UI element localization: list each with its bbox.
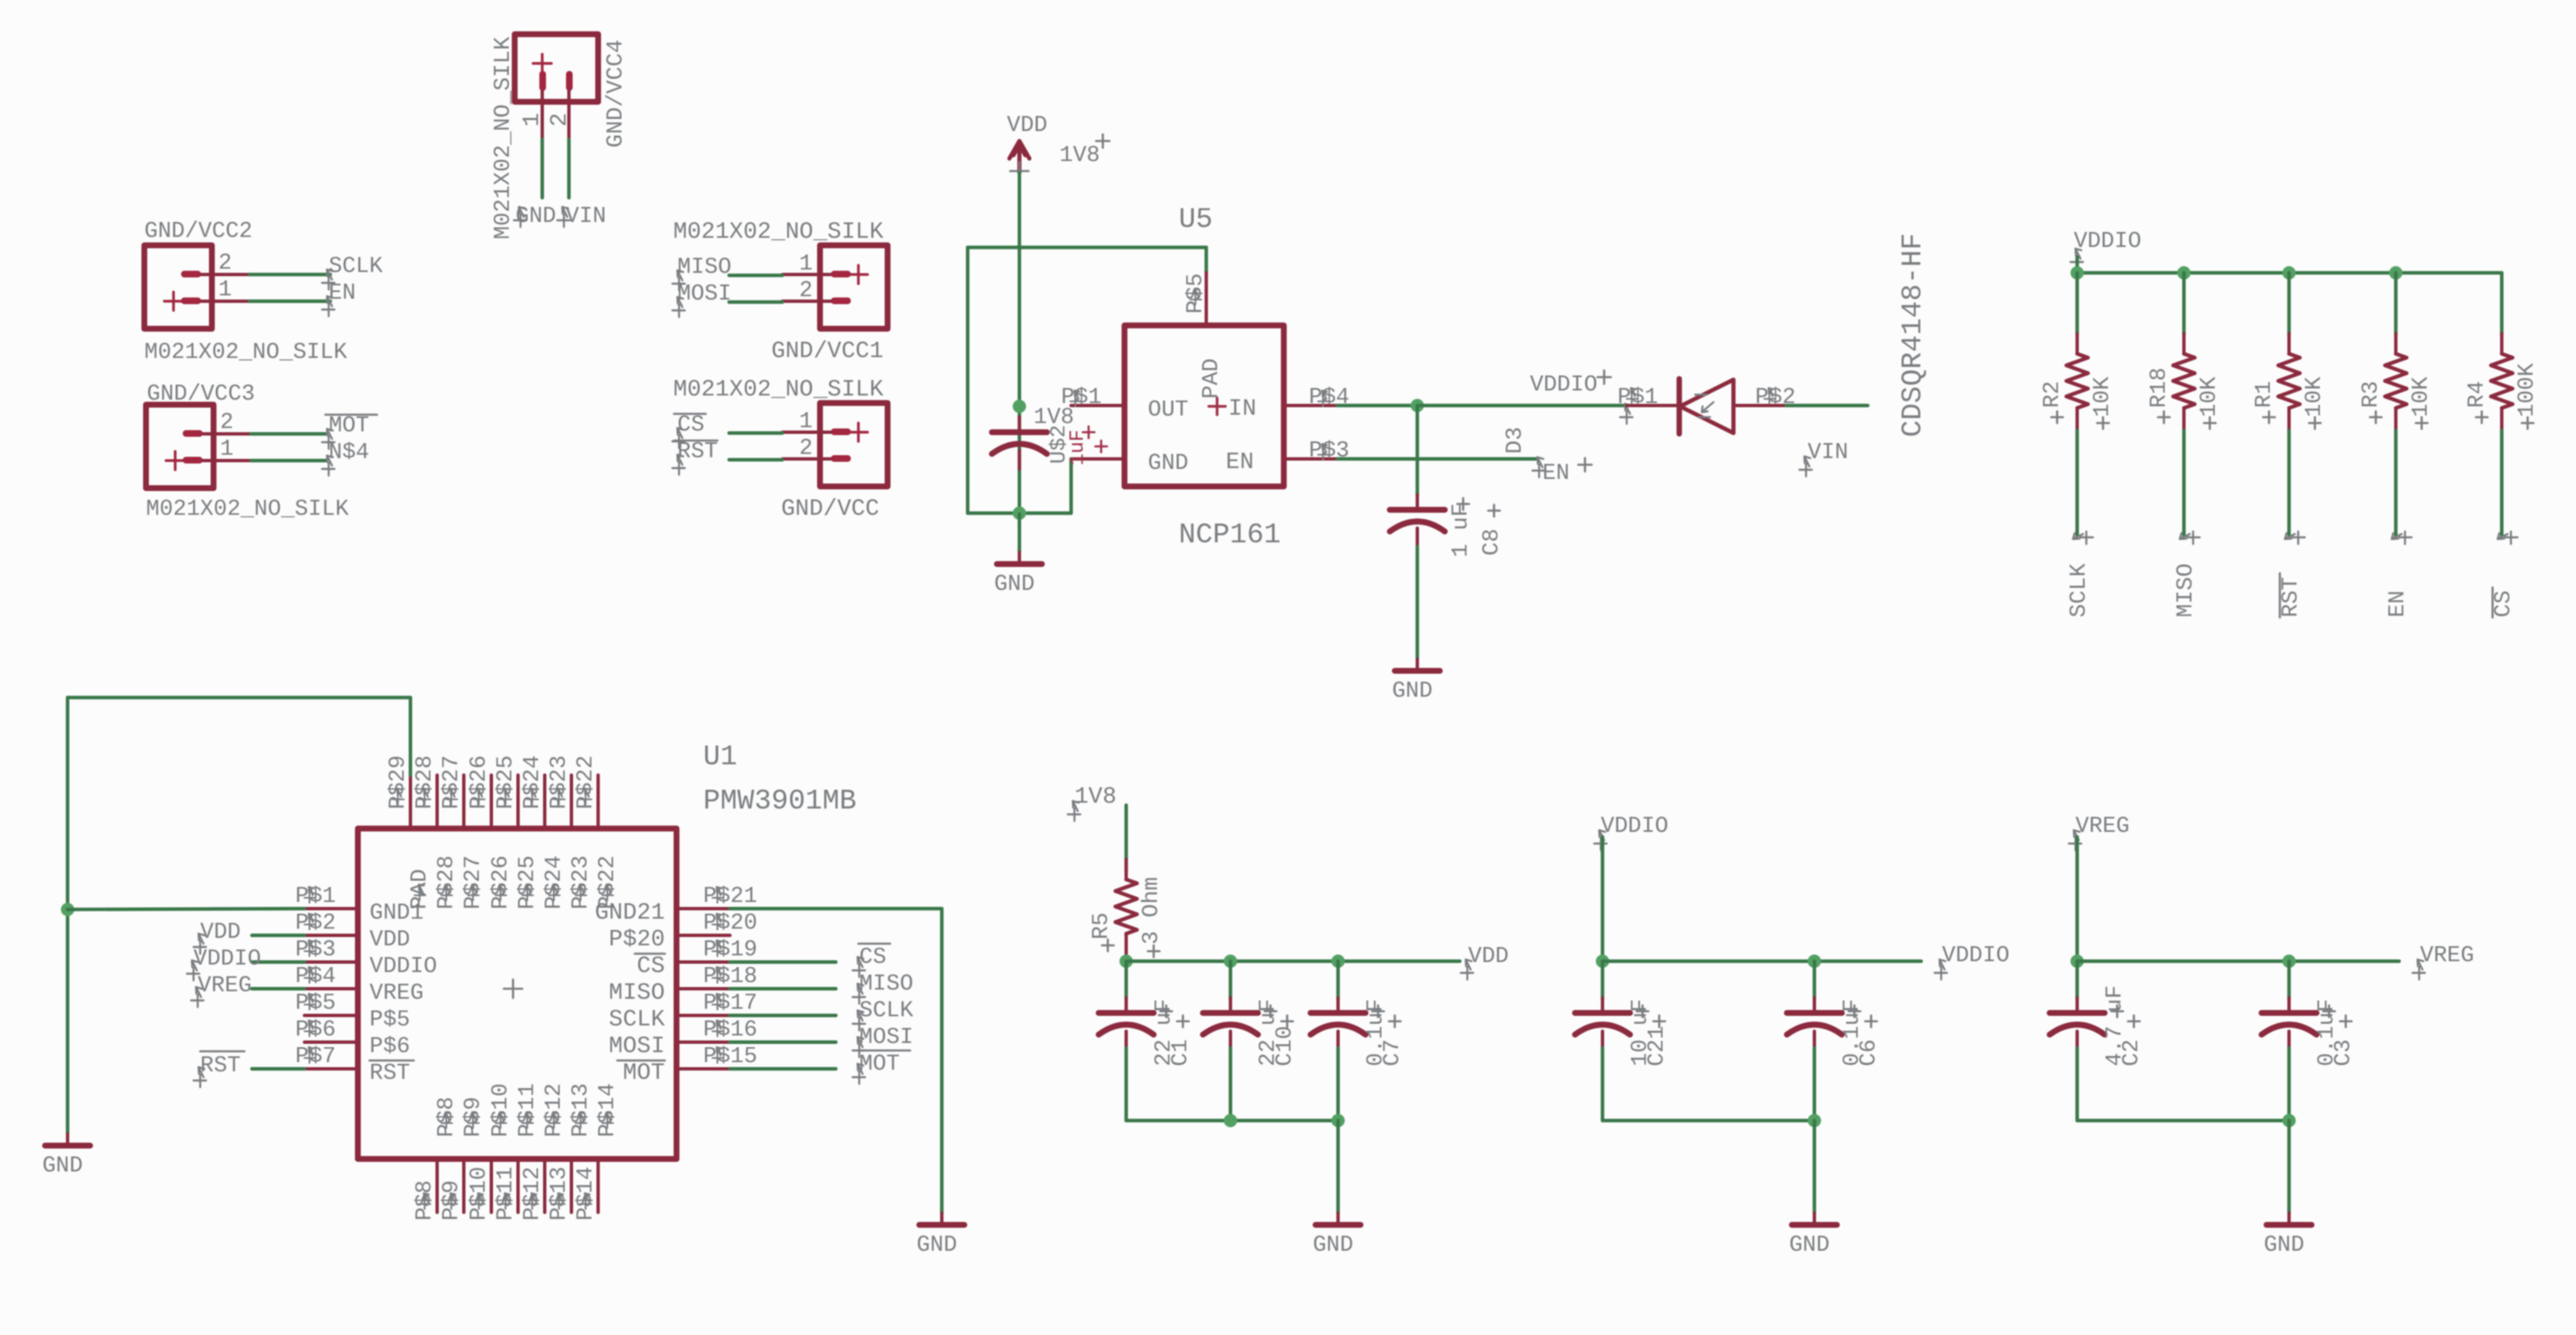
- svg-text:GND: GND: [1313, 1233, 1354, 1258]
- pin P$13 of U1 (bottom): [570, 1159, 573, 1212]
- svg-text:D3: D3: [1503, 427, 1528, 454]
- ground VREG group: [2287, 1213, 2291, 1225]
- capacitor U$2: [1018, 417, 1021, 432]
- svg-text:P$25: P$25: [516, 855, 541, 909]
- svg-text:2: 2: [547, 113, 573, 127]
- node VIN label: [1799, 456, 1812, 476]
- pin P$15 MOT of U1 (right): [677, 1067, 730, 1071]
- svg-text:GND: GND: [516, 204, 556, 229]
- pin P$6 P$6 of U1 (left): [304, 1040, 358, 1044]
- wire GND pin drop of U5: [1069, 459, 1073, 513]
- origin cross U1: [504, 980, 522, 998]
- svg-text:GND: GND: [917, 1233, 958, 1258]
- svg-text:MISO: MISO: [677, 255, 732, 280]
- junction VDDIO bus R3: [2389, 266, 2402, 280]
- node SCLK below R2: [2073, 531, 2093, 544]
- svg-text:1: 1: [799, 252, 813, 277]
- resistor R5: [1124, 859, 1128, 879]
- wire R1 to RST: [2287, 431, 2291, 536]
- wire GND21 vertical: [940, 909, 943, 1213]
- wire VDDIO drop: [2075, 257, 2079, 273]
- wire VDD bus: [1126, 960, 1460, 963]
- wire VDDIO to U1 P$3: [252, 960, 304, 964]
- resistor R4: [2500, 334, 2503, 354]
- wire EN net from U5 P$3: [1337, 457, 1536, 461]
- wire VDDIO drop to bus: [1601, 837, 1604, 961]
- capacitor C3: [2287, 961, 2291, 1000]
- wire EN from GND/VCC2 pin 1: [249, 300, 330, 303]
- pin P$8 of U1 (bottom): [435, 1159, 439, 1212]
- node VREG at U1: [191, 987, 204, 1007]
- connector GND/VCC1: [782, 245, 888, 329]
- supply VDD arrow: [1009, 141, 1029, 173]
- op-amp U5 NCP161 regulator box: [1124, 325, 1284, 486]
- pin P$25 of U1 (top): [516, 775, 520, 829]
- junction VREG C2: [2070, 955, 2084, 968]
- wire VREG group bottom bus: [2077, 1119, 2289, 1122]
- pin P$28 of U1 (top): [435, 775, 439, 829]
- svg-text:10K: 10K: [2090, 376, 2116, 417]
- wire SCLK from GND/VCC2 pin 2: [249, 273, 330, 276]
- svg-text:EN: EN: [2386, 591, 2411, 617]
- junction GND1 node: [61, 903, 74, 916]
- node MISO: [672, 270, 685, 290]
- node VIN label: [557, 207, 570, 227]
- svg-text:P$27: P$27: [461, 855, 486, 909]
- wire GND1 to P$1: [68, 909, 304, 909]
- svg-text:P$5: P$5: [370, 1008, 410, 1033]
- node GND label: [514, 207, 526, 227]
- svg-text:P$10: P$10: [489, 1083, 514, 1137]
- node VREG supply label left: [2069, 830, 2081, 850]
- svg-text:2: 2: [220, 411, 234, 436]
- wire VDD to U1 P$2: [252, 934, 304, 937]
- pin P$14 of U1 (bottom): [596, 1159, 600, 1212]
- capacitor C2: [2075, 961, 2079, 1000]
- svg-text:P$24: P$24: [542, 855, 567, 909]
- capacitor C6: [1813, 961, 1816, 1000]
- svg-text:M021X02_NO_SILK: M021X02_NO_SILK: [146, 497, 350, 522]
- node CS: [672, 428, 685, 448]
- node MISO right of U1: [853, 984, 865, 1004]
- node VDDIO at U1: [187, 960, 199, 980]
- wire GND1 loop P$29 drop: [409, 698, 412, 775]
- svg-text:P$17: P$17: [703, 991, 757, 1016]
- svg-text:1: 1: [520, 113, 546, 127]
- junction OUT node: [1013, 400, 1026, 413]
- svg-text:1V8: 1V8: [1074, 784, 1116, 810]
- wire IN net from U5 to junction: [1337, 404, 1417, 407]
- svg-text:GND: GND: [1392, 679, 1433, 704]
- svg-text:M021X02_NO_SILK: M021X02_NO_SILK: [144, 340, 348, 365]
- junction GND node: [1013, 506, 1026, 520]
- svg-text:N$4: N$4: [329, 441, 370, 466]
- wire VREG drop to bus: [2075, 837, 2079, 961]
- junction C3 top: [2282, 955, 2296, 968]
- pin P$12 of U1 (bottom): [543, 1159, 546, 1212]
- resistor R1: [2287, 334, 2291, 354]
- svg-text:VIN: VIN: [1808, 441, 1849, 466]
- svg-text:P$28: P$28: [435, 855, 460, 909]
- svg-text:1 uF: 1 uF: [1449, 503, 1474, 557]
- junction C6 top: [1808, 955, 1821, 968]
- wire 1V8 to R5: [1124, 805, 1128, 873]
- capacitor C8: [1416, 406, 1419, 497]
- junction R5 VDD bus: [1119, 955, 1133, 968]
- pin P$7 RST of U1 (left): [304, 1067, 358, 1071]
- ground below U5: [1018, 514, 1021, 552]
- node VDD label right: [1461, 960, 1473, 980]
- node VDDIO label right 2: [1935, 960, 1947, 980]
- svg-text:P$20: P$20: [609, 927, 665, 953]
- diode D3 CDSQR4148-HF: [1627, 404, 1679, 407]
- svg-text:MOT: MOT: [623, 1060, 665, 1086]
- pin P$26 of U1 (top): [490, 775, 493, 829]
- svg-text:P$20: P$20: [703, 911, 757, 936]
- svg-text:PMW3901MB: PMW3901MB: [703, 786, 857, 818]
- wire VDD group bottom bus: [1126, 1119, 1338, 1122]
- svg-text:OUT: OUT: [1148, 398, 1189, 423]
- svg-text:R5: R5: [1089, 913, 1114, 940]
- svg-text:P$6: P$6: [370, 1035, 410, 1060]
- svg-text:GND: GND: [1789, 1233, 1830, 1258]
- wire GND1 loop left vertical: [66, 698, 69, 1133]
- wire GND from GND/VCC4 pin 1: [541, 139, 544, 198]
- connector GND/VCC: [782, 403, 888, 486]
- node EN: [322, 296, 335, 316]
- svg-text:VDD: VDD: [200, 920, 241, 945]
- wire VDDIO to R4: [2500, 273, 2503, 335]
- svg-text:VDDIO: VDDIO: [370, 955, 437, 980]
- svg-text:1: 1: [799, 410, 813, 435]
- junction VDDIO bus R1: [2282, 266, 2296, 280]
- ground VDDIO group: [1813, 1213, 1816, 1225]
- svg-text:2: 2: [219, 251, 232, 276]
- svg-text:2: 2: [799, 436, 813, 461]
- resistor R2: [2075, 334, 2079, 354]
- junction bottom C3: [2282, 1114, 2296, 1127]
- ground VDD group: [1336, 1213, 1340, 1225]
- pin P$11 of U1 (bottom): [516, 1159, 520, 1212]
- pin P$1 OUT of U5: [1071, 404, 1124, 407]
- wire R4 to CS: [2500, 431, 2503, 536]
- pin P$18 MISO of U1 (right): [677, 987, 730, 990]
- svg-text:P$11: P$11: [516, 1083, 541, 1137]
- node MISO below R18: [2180, 531, 2200, 544]
- wire VREG to U1 P$4: [252, 987, 304, 990]
- svg-text:P$23: P$23: [569, 855, 594, 909]
- node EN label: [1532, 457, 1545, 477]
- node RST below R1: [2285, 531, 2305, 544]
- wire RST to GND/VCC pin 2: [729, 458, 782, 461]
- svg-text:10K: 10K: [2409, 376, 2434, 417]
- wire C8 to ground: [1416, 547, 1419, 659]
- svg-text:GND21: GND21: [595, 900, 665, 926]
- svg-text:10K: 10K: [2197, 376, 2222, 417]
- connector GND/VCC2: [144, 245, 249, 329]
- svg-text:C21: C21: [1645, 1025, 1670, 1066]
- wire CS from U1: [730, 960, 836, 964]
- svg-text:U1: U1: [703, 742, 737, 773]
- svg-text:M021X02_NO_SILK: M021X02_NO_SILK: [491, 36, 516, 239]
- IC U1 PMW3901MB box: [358, 829, 677, 1159]
- wire MOSI from U1: [730, 1040, 836, 1044]
- wire U5 bottom loop: [968, 511, 1071, 515]
- node RST: [672, 455, 685, 475]
- wire VIN from GND/VCC4 pin 2: [567, 139, 571, 198]
- svg-text:VREG: VREG: [198, 974, 252, 999]
- svg-text:MISO: MISO: [609, 980, 665, 1006]
- svg-text:VDD: VDD: [1468, 945, 1509, 970]
- svg-text:R2: R2: [2040, 381, 2065, 408]
- wire MOSI to GND/VCC1 pin 2: [729, 300, 782, 304]
- wire C7 to ground: [1336, 1121, 1340, 1213]
- svg-text:VDD: VDD: [370, 928, 410, 953]
- pin P$2 VDD of U1 (left): [304, 934, 358, 937]
- svg-text:GND: GND: [2264, 1233, 2305, 1258]
- svg-text:P$13: P$13: [569, 1083, 594, 1137]
- svg-text:MOSI: MOSI: [677, 282, 732, 307]
- svg-text:10K: 10K: [2302, 376, 2327, 417]
- wire R3 to EN: [2394, 431, 2397, 536]
- wire MISO to GND/VCC1 pin 1: [729, 274, 782, 277]
- svg-text:C3: C3: [2332, 1040, 2357, 1066]
- wire VDDIO bus 2: [1602, 960, 1921, 963]
- ground right of U1: [940, 1213, 943, 1225]
- svg-text:SCLK: SCLK: [609, 1007, 665, 1033]
- connector GND/VCC4: [515, 34, 598, 139]
- svg-text:NCP161: NCP161: [1179, 520, 1280, 552]
- pin P$19 CS of U1 (right): [677, 960, 730, 964]
- wire N$4 from GND/VCC3 pin 1: [251, 459, 325, 462]
- pin P$29 of U1 (top): [409, 775, 412, 829]
- svg-text:GND/VCC2: GND/VCC2: [144, 219, 253, 244]
- svg-text:R1: R1: [2252, 381, 2277, 408]
- pin P$1 GND1 of U1 (left): [304, 907, 358, 910]
- svg-text:MISO: MISO: [2174, 563, 2199, 617]
- node SCLK right of U1: [853, 1010, 865, 1030]
- pin P$4 VREG of U1 (left): [304, 987, 358, 990]
- svg-text:GND/VCC4: GND/VCC4: [604, 39, 629, 148]
- junction bottom C7: [1331, 1114, 1345, 1127]
- svg-text:CS: CS: [677, 413, 704, 438]
- pin P$9 of U1 (bottom): [462, 1159, 465, 1212]
- svg-text:C1: C1: [1169, 1040, 1194, 1066]
- pin P$5 P$5 of U1 (left): [304, 1014, 358, 1017]
- svg-text:1uF: 1uF: [1067, 430, 1089, 466]
- node MOSI: [672, 297, 685, 317]
- capacitor C7: [1336, 961, 1340, 1000]
- pin P$5 of U5: [1205, 273, 1208, 325]
- node MOT: [322, 429, 335, 449]
- svg-text:VREG: VREG: [2075, 814, 2130, 839]
- svg-text:GND: GND: [994, 572, 1035, 597]
- wire R2 to SCLK: [2075, 431, 2079, 536]
- wire VDDIO to R3: [2394, 273, 2397, 335]
- connector GND/VCC3: [146, 405, 251, 488]
- pin P$22 of U1 (top): [596, 775, 600, 829]
- svg-text:M021X02_NO_SILK: M021X02_NO_SILK: [673, 219, 883, 245]
- wire P$5 drop: [1205, 248, 1208, 274]
- svg-text:VDDIO: VDDIO: [1601, 814, 1668, 839]
- capacitor C10: [1229, 961, 1232, 1000]
- svg-text:VDD: VDD: [1007, 113, 1048, 139]
- capacitor C21: [1601, 961, 1604, 1000]
- wire VDDIO to R2: [2075, 273, 2079, 335]
- svg-text:M021X02_NO_SILK: M021X02_NO_SILK: [673, 377, 883, 403]
- svg-text:RST: RST: [2279, 577, 2304, 617]
- wire VIN net: [1786, 404, 1868, 407]
- wire GND21 from U1 P$21: [730, 907, 942, 910]
- ground left of U1: [66, 1134, 69, 1146]
- wire VDD vertical: [1018, 173, 1021, 514]
- junction VDDIO bus R2: [2070, 266, 2084, 280]
- svg-text:SCLK: SCLK: [2067, 562, 2092, 617]
- node 1V8 supply label: [1068, 801, 1080, 821]
- pin P$10 of U1 (bottom): [490, 1159, 493, 1212]
- svg-text:P$15: P$15: [703, 1045, 757, 1070]
- svg-text:R3: R3: [2359, 381, 2384, 408]
- node RST at U1: [194, 1067, 206, 1087]
- node VDDIO supply label left: [1594, 830, 1607, 850]
- svg-text:VREG: VREG: [370, 981, 424, 1006]
- svg-text:MOSI: MOSI: [859, 1025, 913, 1050]
- wire SCLK from U1: [730, 1014, 836, 1017]
- svg-text:C10: C10: [1273, 1025, 1298, 1066]
- svg-text:RST: RST: [200, 1054, 241, 1079]
- wire MISO from U1: [730, 987, 836, 990]
- svg-text:RST: RST: [677, 440, 718, 465]
- svg-text:C7: C7: [1381, 1040, 1406, 1066]
- wire U5 left loop vertical: [966, 248, 969, 514]
- node VDD at U1: [194, 934, 206, 954]
- node SCLK: [322, 270, 335, 290]
- node MOSI right of U1: [853, 1037, 865, 1057]
- junction C8 node: [1411, 399, 1424, 412]
- svg-text:MOT: MOT: [329, 414, 370, 439]
- wire C6 to ground: [1813, 1121, 1816, 1213]
- svg-text:GND/VCC3: GND/VCC3: [147, 382, 255, 407]
- svg-text:P$18: P$18: [703, 965, 757, 990]
- pin P$17 SCLK of U1 (right): [677, 1014, 730, 1017]
- svg-text:GND: GND: [1148, 451, 1189, 476]
- pin P$27 of U1 (top): [462, 775, 465, 829]
- node MOT right of U1: [853, 1064, 865, 1084]
- wire CS to GND/VCC pin 1: [729, 431, 782, 435]
- pin P$20 P$20 of U1 (right): [677, 934, 730, 937]
- wire GND1 loop top: [68, 696, 410, 699]
- resistor R3: [2394, 334, 2397, 354]
- pin P$24 of U1 (top): [543, 775, 546, 829]
- svg-text:MOT: MOT: [859, 1052, 900, 1077]
- resistor R18: [2182, 334, 2186, 354]
- svg-text:MOSI: MOSI: [609, 1034, 665, 1060]
- svg-text:IN: IN: [1228, 396, 1256, 422]
- svg-text:GND1: GND1: [370, 901, 424, 926]
- pin GND of U5: [1071, 457, 1124, 461]
- svg-text:C8: C8: [1480, 529, 1505, 556]
- pin P$3 VDDIO of U1 (left): [304, 960, 358, 964]
- svg-text:PAD: PAD: [1200, 358, 1225, 399]
- node CS below R4: [2498, 531, 2518, 544]
- node VREG label right: [2412, 960, 2425, 980]
- svg-text:P$21: P$21: [703, 884, 757, 909]
- junction C10 top: [1224, 955, 1237, 968]
- svg-text:CS: CS: [2492, 591, 2517, 617]
- svg-text:VIN: VIN: [566, 204, 606, 229]
- wire VDDIO to R1: [2287, 273, 2291, 335]
- svg-text:P$19: P$19: [703, 938, 757, 963]
- svg-text:R4: R4: [2465, 381, 2490, 408]
- svg-text:P$12: P$12: [542, 1083, 567, 1137]
- svg-text:3 Ohm: 3 Ohm: [1140, 877, 1165, 945]
- pin P$23 of U1 (top): [570, 775, 573, 829]
- svg-text:C6: C6: [1857, 1040, 1882, 1066]
- svg-text:CS: CS: [636, 954, 665, 980]
- svg-text:GND: GND: [43, 1154, 83, 1179]
- svg-text:1: 1: [220, 437, 234, 462]
- wire U5 top loop horizontal: [968, 245, 1206, 249]
- wire R18 to MISO: [2182, 431, 2186, 536]
- svg-text:RST: RST: [370, 1061, 410, 1086]
- svg-text:P$14: P$14: [596, 1083, 621, 1137]
- svg-text:GND/VCC1: GND/VCC1: [772, 339, 883, 365]
- svg-text:EN: EN: [1542, 461, 1569, 486]
- pin P$3 EN of U5: [1284, 457, 1337, 461]
- svg-text:P$16: P$16: [703, 1018, 757, 1043]
- junction VDDIO bus R18: [2177, 266, 2191, 280]
- wire VDDIO bus: [2077, 271, 2502, 275]
- junction C7 top: [1331, 955, 1345, 968]
- ground below C8: [1416, 659, 1419, 671]
- wire VDDIO to R18: [2182, 273, 2186, 335]
- pin P$21 GND21 of U1 (right): [677, 907, 730, 910]
- svg-text:GND/VCC: GND/VCC: [781, 496, 879, 522]
- wire VREG bus: [2077, 960, 2399, 963]
- capacitor C1: [1124, 961, 1128, 1000]
- svg-text:R18: R18: [2147, 367, 2172, 408]
- svg-text:EN: EN: [1225, 450, 1254, 476]
- svg-text:EN: EN: [329, 281, 355, 306]
- wire VDDIO group bottom bus: [1602, 1119, 1814, 1122]
- svg-text:VREG: VREG: [2420, 944, 2474, 969]
- wire RST to U1 P$7: [252, 1067, 304, 1071]
- junction bottom C6: [1808, 1114, 1821, 1127]
- svg-text:CDSQR4148-HF: CDSQR4148-HF: [1898, 233, 1929, 437]
- svg-text:SCLK: SCLK: [859, 999, 914, 1024]
- svg-text:SCLK: SCLK: [329, 254, 384, 280]
- junction bottom C10: [1224, 1114, 1237, 1127]
- svg-text:MISO: MISO: [859, 972, 913, 997]
- svg-text:VDDIO: VDDIO: [1942, 944, 2010, 969]
- svg-text:C2: C2: [2120, 1040, 2145, 1066]
- svg-text:VDDIO: VDDIO: [194, 947, 261, 972]
- pin P$4 IN of U5: [1284, 404, 1337, 407]
- svg-text:VDDIO: VDDIO: [2074, 229, 2141, 254]
- svg-text:P$26: P$26: [489, 855, 514, 909]
- wire MOT from U1: [730, 1067, 836, 1071]
- svg-text:1V8: 1V8: [1059, 144, 1100, 169]
- svg-text:2: 2: [799, 279, 813, 304]
- node N$4: [322, 456, 335, 476]
- node CS right of U1: [853, 957, 865, 977]
- svg-text:CS: CS: [859, 945, 886, 970]
- svg-text:100K: 100K: [2515, 362, 2540, 417]
- svg-text:1: 1: [219, 278, 232, 303]
- pin PAD of U5: [1209, 398, 1225, 415]
- svg-text:U5: U5: [1179, 204, 1213, 236]
- junction VDDIO C21: [1596, 955, 1609, 968]
